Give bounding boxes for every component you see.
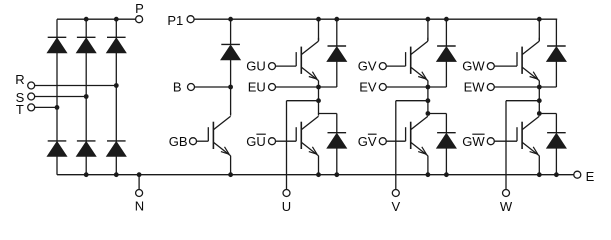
svg-text:N: N [135,199,144,214]
svg-text:P: P [135,1,144,16]
svg-text:GV: GV [358,59,377,74]
svg-text:R: R [15,72,24,87]
svg-text:GV: GV [358,134,377,149]
svg-text:E: E [586,169,595,184]
svg-text:EW: EW [464,80,486,95]
svg-text:GW: GW [462,59,485,74]
svg-text:T: T [16,102,24,117]
svg-text:GU: GU [246,59,266,74]
svg-text:GU: GU [246,134,266,149]
svg-text:EU: EU [248,80,266,95]
svg-text:V: V [391,199,400,214]
svg-text:U: U [282,199,291,214]
svg-text:W: W [500,199,513,214]
svg-text:EV: EV [359,80,377,95]
svg-text:B: B [173,80,182,95]
svg-text:P1: P1 [167,13,183,28]
svg-text:GW: GW [462,134,485,149]
svg-text:GB: GB [169,134,188,149]
